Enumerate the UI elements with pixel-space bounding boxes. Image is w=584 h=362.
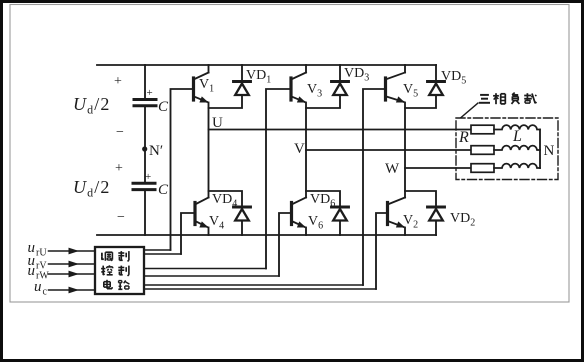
svg-text:VD6: VD6 <box>310 192 335 210</box>
svg-text:V4: V4 <box>209 214 224 232</box>
input u_rV wire with arrow <box>49 261 96 268</box>
svg-text:V: V <box>294 141 305 157</box>
svg-text:VD4: VD4 <box>212 192 237 210</box>
wire base V2 to control <box>376 213 388 289</box>
svg-text:+: + <box>114 74 122 89</box>
svg-text:VD3: VD3 <box>344 66 369 84</box>
svg-text:Ud/2: Ud/2 <box>73 94 110 117</box>
svg-text:−: − <box>117 210 125 225</box>
label VD1 <box>246 68 271 86</box>
label three-phase load caption (san xiang fu zai) <box>479 93 536 105</box>
svg-text:rU: rU <box>36 248 47 259</box>
wire DC-link vertical lower <box>144 190 146 235</box>
wire base V5 to control <box>363 89 386 285</box>
wire base V1 to control <box>171 89 194 250</box>
node N label <box>544 143 555 159</box>
inductor L phase 3 <box>494 164 540 168</box>
inner figure frame <box>10 5 569 303</box>
wire leg midpoint vertical V3-V6 <box>305 103 307 198</box>
svg-text:VD2: VD2 <box>450 211 475 229</box>
node W label <box>385 161 400 177</box>
svg-text:U: U <box>212 115 223 131</box>
wire phase V <box>306 149 471 151</box>
label + upper <box>114 74 122 89</box>
wire VD2 cathode link <box>405 191 436 207</box>
node N' <box>142 143 163 159</box>
inductor L phase 2 <box>494 146 540 150</box>
svg-text:V5: V5 <box>403 82 418 100</box>
wire control output to V5 base <box>144 284 363 286</box>
svg-text:V6: V6 <box>308 214 323 232</box>
transistor V4 <box>195 198 209 236</box>
diode VD6 <box>332 207 349 235</box>
wire base V6 to control <box>279 213 292 276</box>
label V6 <box>308 214 323 232</box>
wire VD3 anode link <box>306 95 340 108</box>
wire control output to V2 base <box>144 288 376 290</box>
wire bottom DC bus <box>97 234 436 236</box>
wire control output to V4 base <box>144 253 181 255</box>
node U label <box>212 115 223 131</box>
resistor R phase 3 <box>471 164 494 173</box>
diode VD5 <box>428 65 445 95</box>
svg-text:L: L <box>512 128 522 145</box>
label u_rV <box>28 253 48 272</box>
input u_c wire with arrow <box>49 287 96 294</box>
label L <box>512 128 522 145</box>
svg-text:R: R <box>458 129 469 146</box>
capacitor C1 <box>134 87 156 106</box>
transistor V5 <box>386 65 406 103</box>
label C2 value <box>158 182 169 198</box>
label V5 <box>403 82 418 100</box>
node V label <box>294 141 305 157</box>
svg-text:c: c <box>43 287 48 298</box>
svg-text:Ud/2: Ud/2 <box>73 177 110 200</box>
wire VD1 anode link <box>209 95 243 108</box>
svg-text:V1: V1 <box>199 77 214 95</box>
transistor V6 <box>292 198 307 236</box>
diode VD3 <box>332 65 349 95</box>
label - bottom <box>117 210 125 225</box>
wire DC-link vertical upper <box>144 65 146 100</box>
svg-text:−: − <box>116 125 124 140</box>
wire control output to V6 base <box>144 275 279 277</box>
label VD3 <box>344 66 369 84</box>
label Ud/2 upper <box>73 94 110 117</box>
svg-text:V3: V3 <box>307 82 322 100</box>
diode VD2 <box>428 207 445 235</box>
wire base V4 to control <box>181 213 195 254</box>
label - middle <box>116 125 124 140</box>
wire base V3 to control <box>266 89 291 269</box>
label VD4 <box>212 192 237 210</box>
svg-text:V2: V2 <box>403 213 418 231</box>
inductor L phase 1 <box>494 125 540 129</box>
svg-text:VD5: VD5 <box>441 69 466 87</box>
input u_rU wire with arrow <box>49 248 96 255</box>
wire DC-link vertical middle <box>144 106 146 183</box>
label VD5 <box>441 69 466 87</box>
label u_c <box>34 279 48 298</box>
resistor R phase 2 <box>471 146 494 155</box>
label control box text line3 (dian lu) <box>104 280 130 290</box>
label Ud/2 lower <box>73 177 110 200</box>
label + lower <box>115 161 123 176</box>
svg-text:W: W <box>385 161 400 177</box>
label u_rW <box>28 263 50 282</box>
block modulation control circuit <box>95 247 144 294</box>
diode VD4 <box>234 207 251 235</box>
label control box text line2 (kong zhi) <box>101 265 129 276</box>
transistor V2 <box>388 198 406 236</box>
transistor V3 <box>291 65 306 103</box>
label V3 <box>307 82 322 100</box>
svg-text:+: + <box>147 87 153 99</box>
svg-text:+: + <box>145 171 151 183</box>
label V4 <box>209 214 224 232</box>
svg-text:N′: N′ <box>149 143 163 159</box>
capacitor C2 <box>133 171 155 190</box>
label V2 <box>403 213 418 231</box>
wire VD4 cathode link <box>209 191 243 207</box>
wire leg midpoint vertical V5-V2 <box>404 103 406 198</box>
diode VD1 <box>234 65 251 95</box>
label V1 <box>199 77 214 95</box>
label VD2 <box>450 211 475 229</box>
label u_rU <box>28 240 48 259</box>
wire control output to V1 base <box>144 249 171 251</box>
transistor V1 <box>194 65 209 103</box>
svg-text:VD1: VD1 <box>246 68 271 86</box>
input u_rW wire with arrow <box>49 271 96 278</box>
svg-text:C: C <box>158 182 169 198</box>
label control box text line1 (tiao zhi) <box>101 251 129 261</box>
load enclosure dash-dot box <box>456 118 558 180</box>
wire top DC bus <box>97 64 436 66</box>
svg-text:N: N <box>544 143 555 159</box>
wire neutral vertical <box>539 130 541 169</box>
wire leg midpoint vertical V1-V4 <box>208 103 210 198</box>
label VD6 <box>310 192 335 210</box>
wire VD6 cathode link <box>306 191 340 207</box>
wire phase W <box>405 167 471 169</box>
svg-text:+: + <box>115 161 123 176</box>
callout line to load label <box>461 103 478 118</box>
resistor R phase 1 <box>471 125 494 134</box>
wire phase U <box>209 129 472 131</box>
label R <box>458 129 469 146</box>
label C1 value <box>158 99 169 115</box>
svg-text:u: u <box>28 263 36 279</box>
svg-text:C: C <box>158 99 169 115</box>
wire VD5 anode link <box>405 95 436 108</box>
svg-text:u: u <box>34 279 42 295</box>
wire control output to V3 base <box>144 268 266 270</box>
